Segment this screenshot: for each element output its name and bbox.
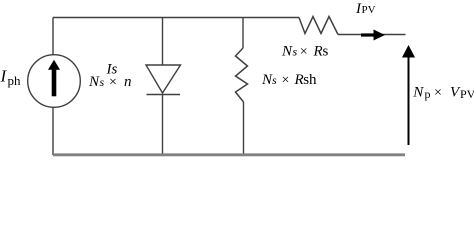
svg-text:ph: ph — [8, 73, 22, 88]
wire output (series resistor to output terminal) — [338, 34, 406, 36]
svg-text:s: s — [272, 73, 277, 87]
svg-text:N: N — [412, 85, 424, 101]
svg-text:×: × — [300, 45, 308, 60]
svg-text:N: N — [88, 74, 100, 90]
resistor Rs (horizontal zigzag, series) — [299, 17, 338, 35]
wire diode branch lower — [162, 95, 164, 156]
wire top-left horizontal (node between current source and diode) — [53, 17, 163, 19]
voltage arrow Np x VPV (vertical, pointing up) — [402, 45, 415, 145]
wire top right (shunt junction to series resistor) — [243, 17, 299, 19]
svg-text:sh: sh — [303, 72, 317, 88]
wire shunt branch upper — [242, 18, 244, 49]
wire left branch lower (current source to bottom rail) — [52, 107, 54, 155]
svg-text:s: s — [293, 45, 298, 59]
wire top middle (diode junction to shunt junction) — [163, 17, 244, 19]
svg-text:R: R — [313, 44, 323, 60]
svg-text:N: N — [281, 44, 293, 60]
svg-text:p: p — [425, 87, 431, 101]
svg-text:PV: PV — [362, 4, 376, 16]
diode cathode bar — [147, 94, 181, 96]
resistor Rsh (vertical zigzag) — [236, 48, 248, 102]
diode D (triangle) — [146, 65, 181, 93]
svg-text:×: × — [434, 86, 442, 101]
wire shunt branch lower — [243, 102, 245, 155]
svg-text:s: s — [323, 44, 329, 60]
current arrow IPV (thick shaft + filled head) — [361, 30, 385, 41]
svg-text:×: × — [282, 73, 290, 88]
svg-text:R: R — [294, 72, 304, 88]
wire left branch upper (top wire down to current source) — [52, 18, 54, 56]
svg-text:PV: PV — [460, 87, 474, 101]
svg-text:s: s — [100, 75, 105, 89]
svg-text:I: I — [0, 67, 8, 86]
wire diode branch upper — [162, 18, 164, 66]
bottom rail wire (grey) — [53, 153, 405, 156]
current source Iph circle — [28, 55, 81, 108]
svg-text:n: n — [124, 74, 132, 90]
svg-text:×: × — [109, 75, 117, 90]
current source Iph internal arrow (pointing up) — [48, 60, 60, 97]
